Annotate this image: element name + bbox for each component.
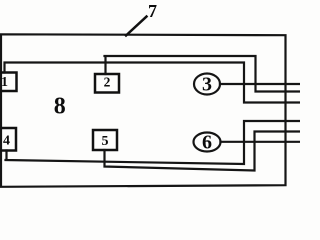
svg-text:2: 2 (104, 75, 111, 90)
wire from box 2 (riser, top bus, down at x255.5, exit y91.5) (105, 56, 301, 92)
wire from box 1 (riser, bus to right, down at x244, exit y102.5) (5, 63, 301, 103)
svg-text:3: 3 (202, 74, 212, 96)
box 2 (95, 74, 119, 93)
circle 3 (194, 74, 220, 95)
wire from circle 6 to right edge (221, 141, 301, 143)
svg-text:4: 4 (3, 134, 10, 149)
circle 6 (194, 133, 221, 152)
svg-text:7: 7 (148, 1, 157, 21)
wire from circle 3 to right edge (220, 83, 300, 85)
wire from box 5 (drop crossing bus, lower bus, up at x254.5, exit y131.5) (105, 132, 301, 171)
svg-text:8: 8 (54, 94, 66, 120)
enclosure 8 outer housing border (1, 34, 286, 187)
box 4 (0, 128, 16, 151)
svg-text:6: 6 (202, 132, 212, 154)
svg-text:5: 5 (102, 134, 109, 149)
box 1 (0, 73, 17, 92)
box 5 (93, 130, 117, 150)
wire from box 4 (drop, bottom bus, up at x244, exit y121) (6, 121, 301, 164)
svg-text:1: 1 (1, 75, 8, 90)
lead line to label 7 (126, 17, 147, 36)
